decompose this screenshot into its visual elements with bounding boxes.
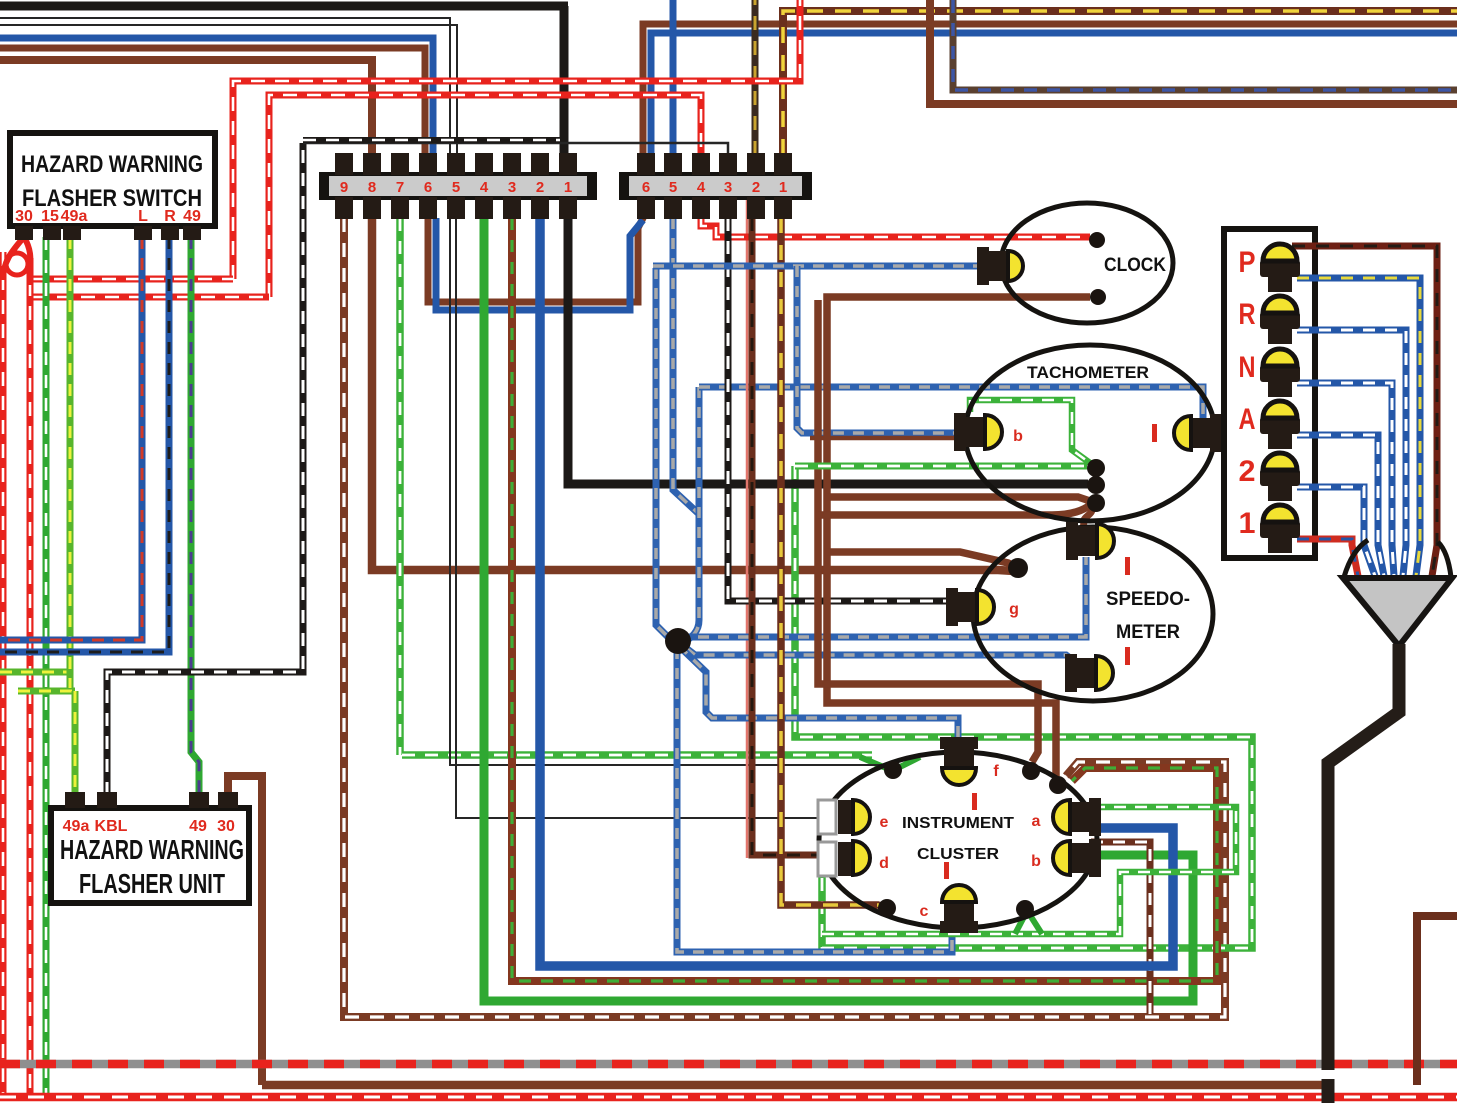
svg-text:g: g <box>1009 601 1019 618</box>
svg-text:6: 6 <box>424 179 432 196</box>
svg-text:2: 2 <box>752 179 760 196</box>
svg-text:a: a <box>1032 813 1041 830</box>
svg-text:METER: METER <box>1116 622 1180 643</box>
svg-text:e: e <box>880 814 889 831</box>
svg-text:b: b <box>1013 428 1023 445</box>
svg-text:15: 15 <box>41 208 59 225</box>
svg-text:5: 5 <box>669 179 677 196</box>
svg-text:1: 1 <box>779 179 787 196</box>
svg-text:49a: 49a <box>61 208 88 225</box>
svg-text:7: 7 <box>396 179 404 196</box>
svg-text:4: 4 <box>480 179 489 196</box>
svg-text:49a: 49a <box>63 818 90 835</box>
svg-text:CLOCK: CLOCK <box>1104 255 1166 276</box>
svg-text:FLASHER UNIT: FLASHER UNIT <box>79 868 225 899</box>
svg-text:4: 4 <box>697 179 706 196</box>
svg-text:3: 3 <box>508 179 516 196</box>
svg-text:5: 5 <box>452 179 460 196</box>
svg-text:c: c <box>920 903 929 920</box>
svg-text:N: N <box>1239 351 1256 384</box>
svg-text:P: P <box>1239 246 1256 279</box>
svg-text:2: 2 <box>536 179 544 196</box>
svg-text:SPEEDO-: SPEEDO- <box>1106 589 1190 610</box>
svg-text:TACHOMETER: TACHOMETER <box>1027 363 1149 382</box>
svg-text:3: 3 <box>724 179 732 196</box>
svg-text:INSTRUMENT: INSTRUMENT <box>902 815 1014 832</box>
svg-text:6: 6 <box>642 179 650 196</box>
svg-text:d: d <box>879 855 889 872</box>
svg-text:1: 1 <box>1239 507 1256 540</box>
svg-text:1: 1 <box>564 179 572 196</box>
svg-text:b: b <box>1031 853 1041 870</box>
svg-text:HAZARD WARNING: HAZARD WARNING <box>60 834 244 865</box>
svg-text:KBL: KBL <box>95 818 128 835</box>
svg-text:f: f <box>993 763 999 780</box>
svg-text:49: 49 <box>189 818 207 835</box>
svg-text:CLUSTER: CLUSTER <box>917 846 999 863</box>
svg-text:R: R <box>1239 298 1256 331</box>
svg-text:R: R <box>164 208 176 225</box>
svg-text:8: 8 <box>368 179 376 196</box>
svg-text:30: 30 <box>15 208 33 225</box>
svg-text:2: 2 <box>1239 455 1256 488</box>
svg-text:30: 30 <box>217 818 235 835</box>
svg-text:L: L <box>138 208 148 225</box>
svg-text:A: A <box>1239 403 1256 436</box>
svg-text:49: 49 <box>183 208 201 225</box>
svg-text:9: 9 <box>340 179 348 196</box>
svg-text:HAZARD WARNING: HAZARD WARNING <box>21 151 203 178</box>
